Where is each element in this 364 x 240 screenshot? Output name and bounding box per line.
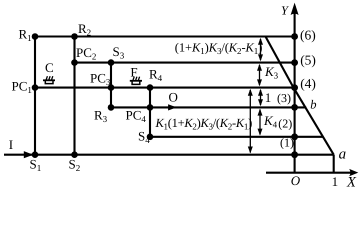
node R2 xyxy=(71,33,78,40)
wire row2 S4-(2) xyxy=(150,136,324,138)
wire row5 PC2-S3-(5) xyxy=(75,62,295,64)
wire row3 R3-PC4-O-(3) xyxy=(111,106,306,108)
svg-text:O: O xyxy=(169,90,178,105)
svg-text:I: I xyxy=(9,137,13,152)
node R3 xyxy=(108,104,115,111)
X axis arrowhead xyxy=(349,169,358,176)
node S3 xyxy=(108,59,115,66)
dimension arrow (4)-(1) long xyxy=(249,90,251,153)
wire column A R1-PC1-S1 xyxy=(34,37,36,155)
svg-text:b: b xyxy=(310,97,316,111)
output arrowhead O xyxy=(168,104,177,110)
wire column C S3-PC3-R3 xyxy=(110,63,112,108)
input arrowhead I xyxy=(24,151,34,158)
X axis line xyxy=(266,172,352,174)
node R4 xyxy=(147,84,154,91)
wire row6 R1-R2-(6) xyxy=(35,35,295,37)
svg-text:C: C xyxy=(45,60,54,75)
node PC4 xyxy=(147,104,154,111)
node PC3 xyxy=(108,84,115,91)
dimension arrow (3)-(2) label K4 xyxy=(259,110,261,135)
svg-text:1: 1 xyxy=(265,90,272,105)
node S1 xyxy=(32,151,39,158)
node (3) on Y axis xyxy=(291,104,298,111)
svg-text:X: X xyxy=(346,175,357,190)
node S4 xyxy=(147,134,154,141)
transfer curve segment (4) to a xyxy=(294,88,334,155)
node PC1 xyxy=(32,84,39,91)
capacitor symbol C xyxy=(43,76,55,83)
Y axis line xyxy=(294,6,296,173)
wire row4 PC1-PC3-R4-(4) xyxy=(35,87,295,89)
dimension arrow (5)-(4) label K3 xyxy=(259,65,261,85)
svg-text:a: a xyxy=(339,147,347,163)
node (6) on Y axis xyxy=(291,33,298,40)
node R1 xyxy=(32,33,39,40)
svg-text:(1): (1) xyxy=(280,136,294,150)
svg-text:F: F xyxy=(130,64,137,79)
svg-text:O: O xyxy=(291,173,301,188)
svg-text:(4): (4) xyxy=(300,76,316,91)
svg-text:K1(1+K2)K3/(K2-K1): K1(1+K2)K3/(K2-K1) xyxy=(155,116,253,132)
transfer curve segment (6) to (4) xyxy=(266,37,294,88)
svg-text:(2): (2) xyxy=(278,117,292,131)
wire column D R4-PC4-S4 xyxy=(149,88,151,137)
node S2 xyxy=(71,151,78,158)
node (5) on Y axis xyxy=(291,59,298,66)
vertical drop from a to X axis at 1 xyxy=(333,155,335,173)
node PC2 xyxy=(71,59,78,66)
node (4) on Y axis xyxy=(291,84,298,91)
svg-text:1: 1 xyxy=(332,174,339,189)
dimension arrow (6)-(5) xyxy=(260,39,262,60)
node (2) on Y axis xyxy=(291,133,298,140)
dimension arrow (4)-(3) label 1 xyxy=(260,90,262,105)
Y axis arrowhead xyxy=(291,3,299,15)
wire column B R2-PC2-S2 xyxy=(73,37,75,155)
svg-text:(3): (3) xyxy=(277,91,291,105)
svg-text:(5): (5) xyxy=(300,53,316,68)
wire row1 I-S1-S2-(1)-a xyxy=(4,154,334,156)
capacitor symbol F xyxy=(130,77,142,85)
svg-text:(6): (6) xyxy=(300,27,316,42)
node (1) on Y axis xyxy=(291,151,298,158)
